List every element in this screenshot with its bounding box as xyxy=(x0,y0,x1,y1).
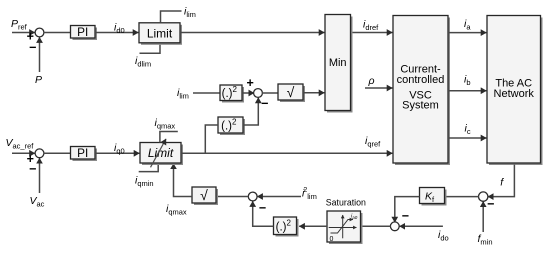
svg-text:+: + xyxy=(247,76,254,90)
svg-text:PI: PI xyxy=(77,146,88,160)
wire ilim to squarer A xyxy=(193,92,220,94)
wire f from AC Network to S3 xyxy=(488,165,515,197)
squarer A (.)^2 xyxy=(220,85,244,103)
svg-text:Network: Network xyxy=(494,88,535,100)
controller PI2 xyxy=(71,146,98,161)
wire S2 to sqrt1 xyxy=(262,92,278,94)
limiter Limit1 xyxy=(139,23,182,45)
svg-text:Min: Min xyxy=(329,57,347,69)
wire ido input xyxy=(400,225,443,227)
wire Vac feedback xyxy=(39,158,41,193)
sqrt block 2 xyxy=(192,187,218,205)
wire Vac_ref input xyxy=(12,152,35,154)
wire i2lim input xyxy=(257,196,301,198)
wire idlim parameter into Limit1 bottom xyxy=(140,45,161,54)
wire Pref input xyxy=(12,32,35,34)
wire fmin input xyxy=(482,201,484,232)
svg-text:√: √ xyxy=(200,187,208,203)
wire squarer A to S2 xyxy=(242,92,254,94)
wire rho input xyxy=(365,87,392,89)
svg-text:Saturation: Saturation xyxy=(326,197,366,207)
svg-text:−: − xyxy=(261,97,268,111)
saturation horizontal axis xyxy=(329,227,357,229)
wire squarer C to S5 xyxy=(253,201,274,226)
variable limiter Limit2 xyxy=(140,143,183,166)
summing junction S3 xyxy=(479,192,488,201)
sqrt block 1 xyxy=(278,84,305,102)
wire P feedback xyxy=(39,37,41,72)
block U2 The AC Network xyxy=(487,16,543,166)
squarer B (.)^2 xyxy=(218,117,245,135)
wire Min to VSC, node idref xyxy=(353,32,393,34)
wire sqrt1 to Min xyxy=(303,92,324,94)
saturation vertical axis xyxy=(342,215,344,238)
wire iqmin parameter into Limit2 bottom xyxy=(139,165,159,172)
wire PI2 to Limit2, node iq0 xyxy=(95,152,139,154)
slash arrow across Limit2 xyxy=(151,139,167,167)
gain Kf xyxy=(420,188,447,206)
svg-text:controlled: controlled xyxy=(397,74,445,86)
summing junction S1 xyxy=(35,28,44,37)
wire Limit1 to Min xyxy=(180,32,324,34)
controller PI1 xyxy=(71,25,98,40)
wire tap iqref line to squarer B xyxy=(205,125,218,153)
wire ib xyxy=(449,90,486,92)
squarer C (.)^2 xyxy=(274,217,299,237)
wire S1 to PI1 xyxy=(44,32,71,34)
wire sqrt2 to Limit2 bottom, node iqmax xyxy=(174,164,193,197)
svg-text:−: − xyxy=(29,162,36,176)
wire Limit2 to VSC, node iqref xyxy=(181,152,392,154)
wire ic xyxy=(449,137,486,139)
saturation block xyxy=(327,211,363,244)
svg-text:−: − xyxy=(402,209,409,223)
wire Kf to S4 xyxy=(395,197,420,223)
wire S4 to Saturation xyxy=(361,225,391,227)
wire S5 to sqrt2 xyxy=(218,196,249,198)
selector Min block xyxy=(325,15,353,113)
wire S6 to PI2 xyxy=(44,152,71,154)
summing junction S6 xyxy=(35,149,44,158)
svg-text:P: P xyxy=(35,74,42,86)
block U1 Current-controlled VSC System xyxy=(393,16,450,166)
summing junction S2 xyxy=(254,89,263,98)
svg-text:PI: PI xyxy=(77,25,88,39)
svg-text:−: − xyxy=(259,201,266,215)
summing junction S5 xyxy=(248,192,257,201)
wire ia xyxy=(449,32,486,34)
svg-text:ρ: ρ xyxy=(368,75,375,87)
svg-text:System: System xyxy=(402,100,439,112)
wire Saturation to squarer C xyxy=(299,225,327,227)
summing junction S4 xyxy=(390,222,399,231)
svg-text:√: √ xyxy=(287,84,295,100)
wire S3 to Kf xyxy=(447,196,479,198)
saturation curve xyxy=(331,220,354,234)
wire iqmax parameter into Limit2 top xyxy=(160,132,178,143)
wire ilim parameter into Limit1 top xyxy=(161,11,182,23)
svg-text:ia0: ia0 xyxy=(351,214,358,221)
svg-text:−: − xyxy=(29,40,36,54)
svg-text:0: 0 xyxy=(330,236,334,243)
svg-text:Limit: Limit xyxy=(147,26,173,40)
svg-text:−: − xyxy=(487,197,494,211)
wire PI1 to Limit1, node id0 xyxy=(95,32,138,34)
wire squarer B to S2 xyxy=(243,98,258,125)
